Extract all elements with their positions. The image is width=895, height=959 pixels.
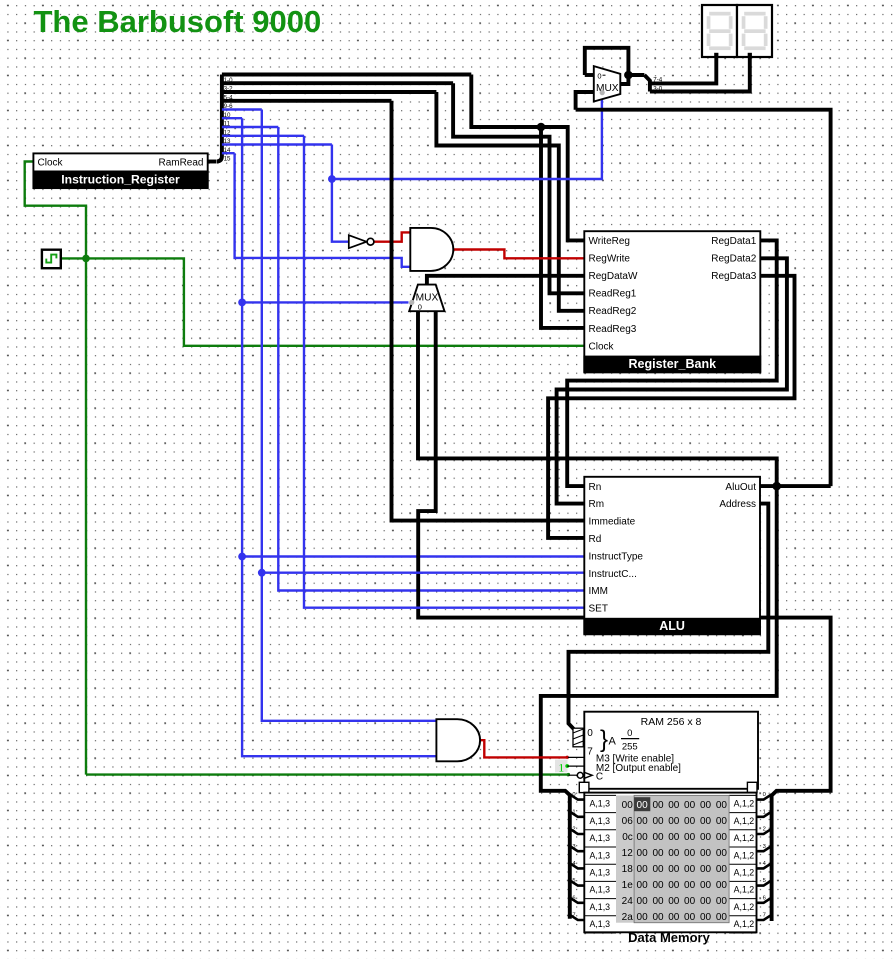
svg-text:2a: 2a [622, 912, 634, 923]
svg-text:Address: Address [719, 499, 756, 510]
svg-text:18: 18 [622, 864, 634, 875]
svg-text:A,1,2: A,1,2 [734, 850, 755, 860]
svg-text:00: 00 [668, 912, 680, 923]
svg-text:00: 00 [716, 912, 728, 923]
svg-text:00: 00 [637, 896, 649, 907]
svg-text:3-0: 3-0 [653, 85, 663, 92]
svg-text:00: 00 [684, 896, 696, 907]
svg-text:RamRead: RamRead [158, 157, 203, 168]
svg-text:00: 00 [716, 800, 728, 811]
svg-text:A,1,3: A,1,3 [590, 799, 611, 809]
svg-text:00: 00 [652, 864, 664, 875]
svg-text:Clock: Clock [38, 157, 64, 168]
svg-text:Data Memory: Data Memory [628, 930, 710, 945]
svg-text:255: 255 [622, 741, 638, 752]
svg-text:00: 00 [637, 800, 649, 811]
svg-text:00: 00 [637, 880, 649, 891]
svg-text:00: 00 [622, 800, 634, 811]
svg-text:12: 12 [224, 129, 231, 136]
svg-text:00: 00 [684, 816, 696, 827]
svg-text:Rn: Rn [589, 482, 602, 493]
svg-text:Instruction_Register: Instruction_Register [61, 173, 180, 187]
svg-text:AluOut: AluOut [725, 482, 756, 493]
svg-text:10: 10 [224, 112, 231, 119]
svg-text:1: 1 [763, 809, 766, 815]
svg-text:A,1,2: A,1,2 [734, 833, 755, 843]
svg-text:00: 00 [652, 800, 664, 811]
svg-text:00: 00 [637, 864, 649, 875]
svg-text:3: 3 [572, 844, 575, 850]
svg-text:00: 00 [716, 832, 728, 843]
svg-text:M2 [Output enable]: M2 [Output enable] [596, 763, 681, 774]
svg-text:0: 0 [418, 302, 422, 311]
svg-text:ReadReg1: ReadReg1 [589, 289, 637, 300]
svg-text:00: 00 [652, 880, 664, 891]
svg-text:RAM 256 x 8: RAM 256 x 8 [641, 716, 702, 728]
svg-text:00: 00 [684, 800, 696, 811]
svg-text:00: 00 [700, 816, 712, 827]
svg-text:A,1,2: A,1,2 [734, 902, 755, 912]
svg-text:1-0: 1-0 [224, 77, 234, 84]
svg-text:RegDataW: RegDataW [589, 271, 638, 282]
svg-text:A: A [609, 736, 617, 748]
svg-text:SET: SET [589, 604, 608, 615]
svg-text:A,1,3: A,1,3 [590, 816, 611, 826]
svg-text:00: 00 [668, 896, 680, 907]
svg-text:0: 0 [587, 728, 593, 739]
svg-text:0c: 0c [622, 832, 633, 843]
svg-text:00: 00 [684, 832, 696, 843]
svg-text:ReadReg2: ReadReg2 [589, 306, 637, 317]
svg-text:Register_Bank: Register_Bank [629, 357, 717, 371]
svg-text:Clock: Clock [589, 341, 615, 352]
svg-text:2: 2 [763, 827, 766, 833]
svg-text:RegData2: RegData2 [711, 254, 756, 265]
svg-text:7: 7 [763, 913, 766, 919]
svg-text:A,1,3: A,1,3 [590, 919, 611, 929]
svg-text:IMM: IMM [589, 586, 608, 597]
svg-text:A,1,2: A,1,2 [734, 799, 755, 809]
svg-text:00: 00 [668, 800, 680, 811]
svg-text:00: 00 [652, 896, 664, 907]
svg-text:00: 00 [652, 848, 664, 859]
svg-text:RegWrite: RegWrite [589, 254, 631, 265]
svg-text:C: C [596, 772, 603, 783]
svg-text:00: 00 [700, 896, 712, 907]
svg-text:00: 00 [652, 912, 664, 923]
svg-text:12: 12 [622, 848, 634, 859]
svg-text:00: 00 [684, 880, 696, 891]
svg-text:5: 5 [763, 878, 766, 884]
svg-text:2: 2 [572, 827, 575, 833]
svg-text:RegData1: RegData1 [711, 236, 756, 247]
svg-text:0: 0 [572, 792, 575, 798]
svg-text:00: 00 [700, 848, 712, 859]
svg-text:0: 0 [763, 792, 766, 798]
svg-text:WriteReg: WriteReg [589, 236, 631, 247]
svg-text:A,1,3: A,1,3 [590, 868, 611, 878]
svg-text:Rm: Rm [589, 499, 605, 510]
svg-text:0: 0 [597, 72, 601, 81]
svg-text:5: 5 [572, 878, 575, 884]
svg-text:7: 7 [587, 746, 593, 757]
svg-text:3-2: 3-2 [224, 86, 234, 93]
svg-text:1e: 1e [622, 880, 634, 891]
svg-text:1: 1 [572, 809, 575, 815]
svg-text:14: 14 [224, 147, 231, 154]
svg-text:00: 00 [668, 864, 680, 875]
svg-text:00: 00 [668, 832, 680, 843]
svg-text:A,1,2: A,1,2 [734, 885, 755, 895]
svg-text:00: 00 [716, 848, 728, 859]
svg-text:00: 00 [716, 896, 728, 907]
svg-text:00: 00 [700, 832, 712, 843]
svg-text:00: 00 [637, 832, 649, 843]
svg-text:15: 15 [224, 156, 231, 163]
svg-text:7-4: 7-4 [653, 76, 663, 83]
svg-text:A,1,3: A,1,3 [590, 902, 611, 912]
svg-text:RegData3: RegData3 [711, 271, 756, 282]
svg-text:00: 00 [684, 912, 696, 923]
svg-text:3: 3 [763, 844, 766, 850]
svg-text:A,1,2: A,1,2 [734, 816, 755, 826]
svg-text:00: 00 [700, 800, 712, 811]
svg-text:00: 00 [700, 880, 712, 891]
svg-text:A,1,3: A,1,3 [590, 885, 611, 895]
svg-text:00: 00 [668, 816, 680, 827]
svg-text:00: 00 [637, 848, 649, 859]
svg-text:00: 00 [668, 848, 680, 859]
svg-text:5-4: 5-4 [224, 94, 234, 101]
svg-text:00: 00 [637, 912, 649, 923]
svg-text:00: 00 [652, 816, 664, 827]
svg-text:00: 00 [716, 816, 728, 827]
svg-text:6: 6 [572, 895, 575, 901]
svg-text:InstructType: InstructType [589, 551, 644, 562]
svg-text:Immediate: Immediate [589, 517, 636, 528]
svg-text:A,1,2: A,1,2 [734, 919, 755, 929]
svg-text:The Barbusoft 9000: The Barbusoft 9000 [34, 4, 322, 39]
svg-text:13: 13 [224, 138, 231, 145]
svg-text:A,1,3: A,1,3 [590, 833, 611, 843]
svg-text:A,1,2: A,1,2 [734, 868, 755, 878]
svg-text:00: 00 [700, 912, 712, 923]
svg-text:00: 00 [716, 864, 728, 875]
svg-text:A,1,3: A,1,3 [590, 850, 611, 860]
svg-text:11: 11 [224, 121, 231, 128]
svg-text:00: 00 [684, 848, 696, 859]
svg-text:}: } [600, 726, 608, 753]
svg-text:6: 6 [763, 895, 766, 901]
svg-text:24: 24 [622, 896, 634, 907]
svg-text:00: 00 [668, 880, 680, 891]
svg-text:MUX: MUX [596, 83, 619, 94]
svg-text:7: 7 [572, 913, 575, 919]
svg-text:06: 06 [622, 816, 634, 827]
svg-text:ALU: ALU [659, 619, 685, 633]
svg-text:1: 1 [558, 760, 564, 774]
svg-text:00: 00 [716, 880, 728, 891]
svg-text:9-6: 9-6 [224, 103, 234, 110]
svg-text:ReadReg3: ReadReg3 [589, 324, 637, 335]
svg-text:00: 00 [684, 864, 696, 875]
svg-text:00: 00 [637, 816, 649, 827]
svg-text:InstructC...: InstructC... [589, 569, 637, 580]
svg-text:0: 0 [627, 728, 632, 739]
svg-text:00: 00 [700, 864, 712, 875]
svg-text:Rd: Rd [589, 534, 602, 545]
svg-text:00: 00 [652, 832, 664, 843]
